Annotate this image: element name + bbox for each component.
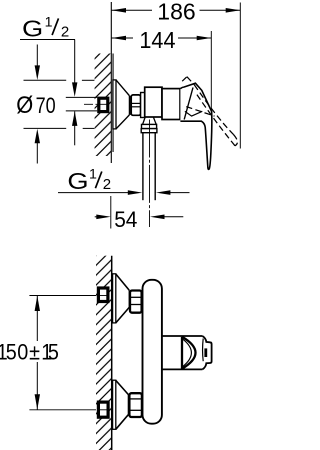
svg-text:1: 1 (45, 14, 53, 30)
dimension Ø 70 (16, 45, 94, 164)
outlet collar (142, 124, 157, 128)
dimension 186 (112, 0, 241, 149)
dimension 144 (112, 27, 212, 111)
wall (top figure, hatched) (95, 2, 113, 163)
svg-text:G: G (22, 16, 43, 42)
svg-text:5: 5 (48, 340, 59, 364)
upper wall fitting (bottom figure) (29, 288, 108, 302)
svg-text:2: 2 (103, 176, 111, 193)
svg-text:1: 1 (89, 166, 97, 182)
outlet centerline (149, 120, 151, 228)
svg-text:5: 5 (6, 340, 17, 364)
body check-valve block (top figure) (145, 87, 162, 117)
lever handle, dashed alternate position (top figure) (182, 77, 237, 146)
svg-text:Ø: Ø (16, 91, 33, 118)
G 1/2 inlet extension lines (top figure) (66, 96, 97, 98)
upper escutcheon (bottom figure) (113, 274, 131, 323)
cartridge cap + lever handle, solid (top figure) (180, 83, 211, 169)
washer (top figure) (141, 93, 145, 118)
svg-text:±: ± (29, 340, 40, 364)
svg-text:186: 186 (157, 0, 195, 24)
lower wall fitting (bottom figure) (29, 402, 108, 417)
dimension 150±15 (0, 296, 59, 410)
body main block (top figure) (162, 88, 180, 120)
label G 1/2 (lower, outlet thread) (58, 166, 190, 195)
cap edge behind lever (184, 88, 193, 120)
lower union nut (bottom figure) (129, 393, 142, 417)
bottom outlet neck (top figure) (143, 117, 157, 124)
label G 1/2 (top left) (20, 14, 77, 145)
lever end tab (bottom figure) (202, 336, 211, 369)
lever underside detail (185, 111, 202, 116)
svg-text:144: 144 (139, 27, 175, 53)
lower escutcheon (bottom figure) (113, 380, 130, 429)
wall union fitting (top figure) (84, 98, 110, 111)
svg-text:70: 70 (36, 95, 56, 119)
svg-text:G: G (67, 169, 88, 195)
escutcheon (top figure) (113, 80, 131, 129)
wall (bottom figure, hatched) (96, 256, 112, 450)
svg-text:54: 54 (114, 207, 137, 232)
upper union nut (bottom figure) (130, 291, 142, 313)
svg-text:2: 2 (61, 23, 69, 40)
outlet pipe G1/2 (top figure) (143, 133, 155, 201)
cartridge housing (bottom figure) (162, 336, 203, 369)
body capsule (bottom figure) (143, 280, 162, 424)
outlet ring (141, 129, 157, 133)
svg-text:0: 0 (17, 340, 28, 364)
union nut (top figure) (131, 95, 140, 115)
dimension 54 (95, 196, 184, 232)
lever cap seen end-on, D-shape (bottom figure) (182, 337, 196, 369)
